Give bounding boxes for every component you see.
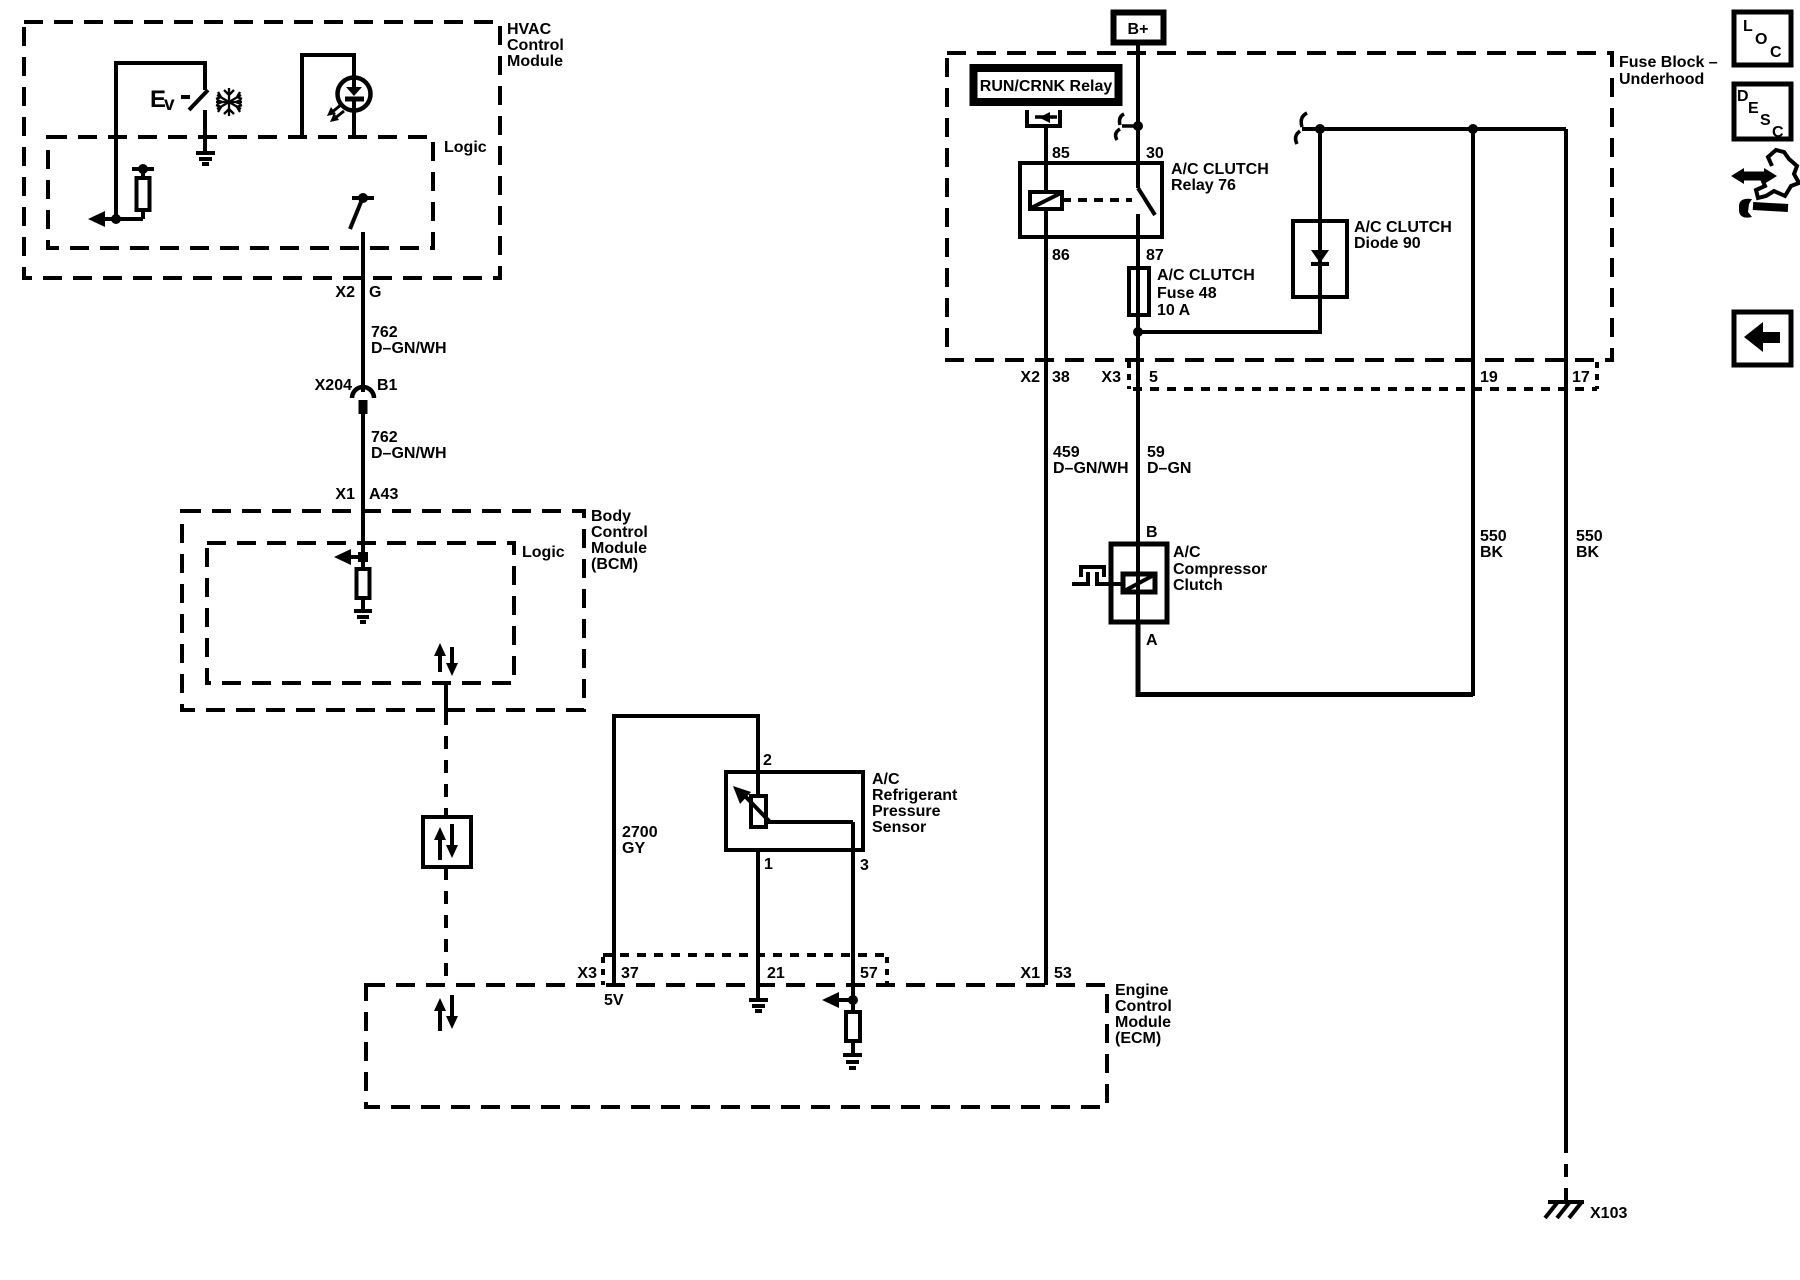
svg-text:B: B bbox=[1146, 524, 1158, 541]
svg-text:57: 57 bbox=[860, 965, 878, 982]
svg-text:762: 762 bbox=[371, 429, 398, 446]
wire A/C request loop bbox=[116, 63, 205, 219]
wire serial data out of BCM bbox=[444, 683, 448, 712]
svg-text:87: 87 bbox=[1146, 247, 1164, 264]
svg-text:Module: Module bbox=[507, 53, 563, 70]
svg-text:Fuse 48: Fuse 48 bbox=[1157, 285, 1217, 302]
svg-text:Relay 76: Relay 76 bbox=[1171, 177, 1236, 194]
svg-text:10 A: 10 A bbox=[1157, 302, 1191, 319]
A/C request switch (Ev) bbox=[150, 86, 208, 115]
svg-text:1: 1 bbox=[764, 856, 773, 873]
svg-text:5V: 5V bbox=[604, 992, 624, 1009]
svg-text:Engine: Engine bbox=[1115, 982, 1168, 999]
wire sensor pin 3 to ECM pin 57 bbox=[851, 850, 855, 1012]
A/C CLUTCH Relay 76 box bbox=[1020, 161, 1269, 237]
serial data arrows (BCM logic) bbox=[434, 643, 458, 676]
svg-text:53: 53 bbox=[1054, 965, 1072, 982]
svg-text:3: 3 bbox=[860, 857, 869, 874]
svg-text:D–GN: D–GN bbox=[1147, 460, 1191, 477]
wire to BCM bbox=[361, 414, 365, 557]
splice hooks on top feed wire bbox=[1296, 113, 1307, 144]
clutch mechanical linkage symbol bbox=[1072, 565, 1123, 586]
BCM input arrow node bbox=[334, 549, 368, 565]
HVAC logic box bbox=[48, 137, 487, 248]
svg-text:Module: Module bbox=[1115, 1014, 1171, 1031]
top feed wire in fuse block bbox=[1302, 127, 1566, 131]
svg-text:Logic: Logic bbox=[444, 139, 487, 156]
svg-text:2: 2 bbox=[763, 752, 772, 769]
LED indicator bbox=[338, 77, 371, 137]
svg-text:D–GN/WH: D–GN/WH bbox=[371, 445, 447, 462]
svg-text:Control: Control bbox=[507, 37, 564, 54]
svg-text:D–GN/WH: D–GN/WH bbox=[1053, 460, 1129, 477]
svg-text:85: 85 bbox=[1052, 145, 1070, 162]
HVAC Control Module box bbox=[24, 21, 564, 278]
wire top feed to diode top bbox=[1318, 129, 1322, 221]
wire label 459 D-GN/WH bbox=[1053, 444, 1129, 477]
svg-text:550: 550 bbox=[1576, 528, 1603, 545]
snowflake icon bbox=[216, 88, 242, 116]
svg-text:B+: B+ bbox=[1128, 21, 1149, 38]
DESC icon box bbox=[1734, 84, 1791, 141]
fuse block X3 connector strip bbox=[1129, 362, 1597, 389]
svg-text:X204: X204 bbox=[315, 377, 352, 394]
wire pin 19 down to clutch return bbox=[1471, 129, 1475, 696]
ground (BCM) bbox=[354, 611, 372, 622]
svg-text:Clutch: Clutch bbox=[1173, 577, 1223, 594]
BCM pull resistor bbox=[357, 557, 370, 609]
wire label 762 D-GN/WH (lower) bbox=[371, 429, 447, 462]
svg-text:A/C CLUTCH: A/C CLUTCH bbox=[1354, 219, 1452, 236]
svg-text:Module: Module bbox=[591, 540, 647, 557]
svg-text:D–GN/WH: D–GN/WH bbox=[371, 340, 447, 357]
svg-text:A: A bbox=[1146, 632, 1158, 649]
svg-text:HVAC: HVAC bbox=[507, 21, 552, 38]
svg-text:Control: Control bbox=[591, 524, 648, 541]
fuse block bottom connector labels bbox=[1020, 369, 1589, 386]
svg-text:X3: X3 bbox=[577, 965, 597, 982]
node X2 G labels bbox=[335, 284, 381, 301]
ground (switch) bbox=[196, 110, 215, 164]
ECM pull resistor bbox=[846, 1012, 860, 1053]
svg-text:BK: BK bbox=[1480, 544, 1504, 561]
junction pin 19 wire bbox=[1468, 124, 1478, 134]
svg-text:L: L bbox=[1743, 18, 1753, 35]
wire label 550 BK (pin 17) bbox=[1576, 528, 1603, 561]
svg-text:(BCM): (BCM) bbox=[591, 556, 638, 573]
A/C Compressor Clutch box bbox=[1111, 544, 1267, 622]
wire RUN/CRNK to relay pin 85 bbox=[1044, 126, 1048, 192]
ground X103 bbox=[1545, 1202, 1627, 1222]
dashed serial data wire bbox=[444, 712, 448, 817]
svg-text:A/C: A/C bbox=[1173, 544, 1201, 561]
svg-text:O: O bbox=[1755, 31, 1767, 48]
svg-text:RUN/CRNK Relay: RUN/CRNK Relay bbox=[980, 78, 1113, 95]
svg-text:19: 19 bbox=[1480, 369, 1498, 386]
svg-text:550: 550 bbox=[1480, 528, 1507, 545]
Fuse Block - Underhood box bbox=[947, 53, 1718, 360]
svg-text:X3: X3 bbox=[1101, 369, 1121, 386]
svg-text:X1: X1 bbox=[335, 486, 355, 503]
clutch coil bbox=[1123, 574, 1155, 592]
svg-text:S: S bbox=[1760, 112, 1771, 129]
ECM pin 57 input arrow node bbox=[822, 992, 858, 1008]
junction diode to top wire bbox=[1315, 124, 1325, 134]
svg-text:2700: 2700 bbox=[622, 824, 658, 841]
svg-text:86: 86 bbox=[1052, 247, 1070, 264]
svg-text:B1: B1 bbox=[377, 377, 398, 394]
svg-text:21: 21 bbox=[767, 965, 785, 982]
wire label 550 BK (pin 19) bbox=[1480, 528, 1507, 561]
svg-text:D: D bbox=[1737, 88, 1749, 105]
svg-text:v: v bbox=[164, 94, 175, 115]
ECM X3 connector strip bbox=[603, 955, 887, 985]
svg-text:A43: A43 bbox=[369, 486, 398, 503]
back arrow icon box bbox=[1734, 312, 1791, 365]
svg-text:C: C bbox=[1770, 44, 1782, 61]
svg-text:C: C bbox=[1772, 124, 1784, 141]
svg-text:17: 17 bbox=[1572, 369, 1590, 386]
svg-text:Logic: Logic bbox=[522, 544, 565, 561]
svg-text:Underhood: Underhood bbox=[1619, 71, 1704, 88]
svg-text:Diode 90: Diode 90 bbox=[1354, 235, 1421, 252]
wire fuse to diode bottom bbox=[1138, 297, 1320, 332]
wire 5V supply to sensor pin 2 bbox=[614, 716, 758, 985]
svg-text:G: G bbox=[369, 284, 381, 301]
svg-text:762: 762 bbox=[371, 324, 398, 341]
dashed wire pin 17 to X103 bbox=[1564, 1140, 1568, 1200]
svg-text:5: 5 bbox=[1149, 369, 1158, 386]
wire relay pin 86 down to ECM X1 53 bbox=[1044, 209, 1048, 985]
svg-text:38: 38 bbox=[1052, 369, 1070, 386]
sensor wiper to pin 3 bbox=[766, 822, 853, 850]
resistor with output arrow (HVAC logic) bbox=[88, 164, 154, 227]
RUN/CRNK Relay feed label bbox=[974, 68, 1119, 102]
Body Control Module (BCM) box bbox=[182, 508, 648, 710]
wire label 762 D-GN/WH (upper) bbox=[371, 324, 447, 357]
wire label 59 D-GN bbox=[1147, 444, 1191, 477]
svg-text:X103: X103 bbox=[1590, 1205, 1627, 1222]
variable resistor inside sensor bbox=[733, 772, 770, 827]
serial data arrows (ECM) bbox=[434, 995, 458, 1031]
A/C Refrigerant Pressure Sensor box bbox=[726, 771, 958, 850]
svg-text:GY: GY bbox=[622, 840, 645, 857]
B+ power node bbox=[1114, 13, 1164, 43]
svg-text:Body: Body bbox=[591, 508, 631, 525]
splice symbol on pin 30 wire bbox=[1116, 114, 1143, 140]
LOC icon box bbox=[1734, 12, 1791, 65]
LED indicator wire loop bbox=[302, 55, 354, 137]
relay actuation dashed link bbox=[1062, 198, 1132, 202]
svg-text:(ECM): (ECM) bbox=[1115, 1030, 1161, 1047]
LED light arrows bbox=[327, 104, 344, 122]
svg-text:A/C: A/C bbox=[872, 771, 900, 788]
svg-text:Compressor: Compressor bbox=[1173, 561, 1267, 578]
in-line connector X204 B1 bbox=[315, 377, 398, 414]
svg-text:X2: X2 bbox=[1020, 369, 1040, 386]
svg-text:X2: X2 bbox=[335, 284, 355, 301]
svg-text:59: 59 bbox=[1147, 444, 1165, 461]
reference arrows and wrench icon bbox=[1731, 150, 1799, 218]
svg-text:459: 459 bbox=[1053, 444, 1080, 461]
svg-text:Fuse Block –: Fuse Block – bbox=[1619, 54, 1718, 71]
serial data link box bbox=[423, 817, 471, 867]
wire clutch pin A return to pin 19 bbox=[1138, 622, 1473, 695]
svg-text:30: 30 bbox=[1146, 145, 1164, 162]
BCM logic box bbox=[207, 543, 565, 683]
A/C CLUTCH Diode 90 bbox=[1293, 219, 1452, 297]
svg-text:A/C CLUTCH: A/C CLUTCH bbox=[1157, 267, 1255, 284]
svg-text:BK: BK bbox=[1576, 544, 1600, 561]
wire relay pin 87 down to clutch bbox=[1136, 214, 1140, 696]
svg-text:Refrigerant: Refrigerant bbox=[872, 787, 958, 804]
wire sensor pin 1 to ECM ground bbox=[756, 850, 760, 998]
pin 1 and 3 labels bbox=[764, 856, 869, 874]
dashed serial data wire to ECM bbox=[444, 867, 448, 985]
svg-text:Control: Control bbox=[1115, 998, 1172, 1015]
wire label 2700 GY bbox=[622, 824, 658, 857]
logic output switch (to X2 G) bbox=[350, 193, 374, 229]
svg-text:37: 37 bbox=[621, 965, 639, 982]
svg-text:A/C CLUTCH: A/C CLUTCH bbox=[1171, 161, 1269, 178]
ground (ECM pin 21) bbox=[749, 1000, 768, 1011]
junction fuse to diode bbox=[1133, 327, 1143, 337]
Engine Control Module (ECM) box bbox=[366, 982, 1172, 1107]
wire B+ to relay pin 30 bbox=[1136, 43, 1140, 188]
ECM connector pin labels bbox=[577, 965, 1071, 982]
relay switch blade bbox=[1138, 188, 1155, 215]
relay coil bbox=[1030, 192, 1062, 209]
svg-text:E: E bbox=[1748, 100, 1759, 117]
A/C CLUTCH Fuse 48 bbox=[1129, 267, 1255, 319]
wire X2 G down to X204 bbox=[361, 232, 365, 392]
node X1 A43 labels bbox=[335, 486, 398, 503]
svg-text:X1: X1 bbox=[1020, 965, 1040, 982]
wire pin 17 down bbox=[1564, 129, 1568, 1140]
ground (ECM pin 57 pull) bbox=[843, 1055, 862, 1068]
svg-text:Sensor: Sensor bbox=[872, 819, 926, 836]
svg-text:Pressure: Pressure bbox=[872, 803, 941, 820]
terminal cup from RUN/CRNK relay bbox=[1027, 110, 1060, 126]
